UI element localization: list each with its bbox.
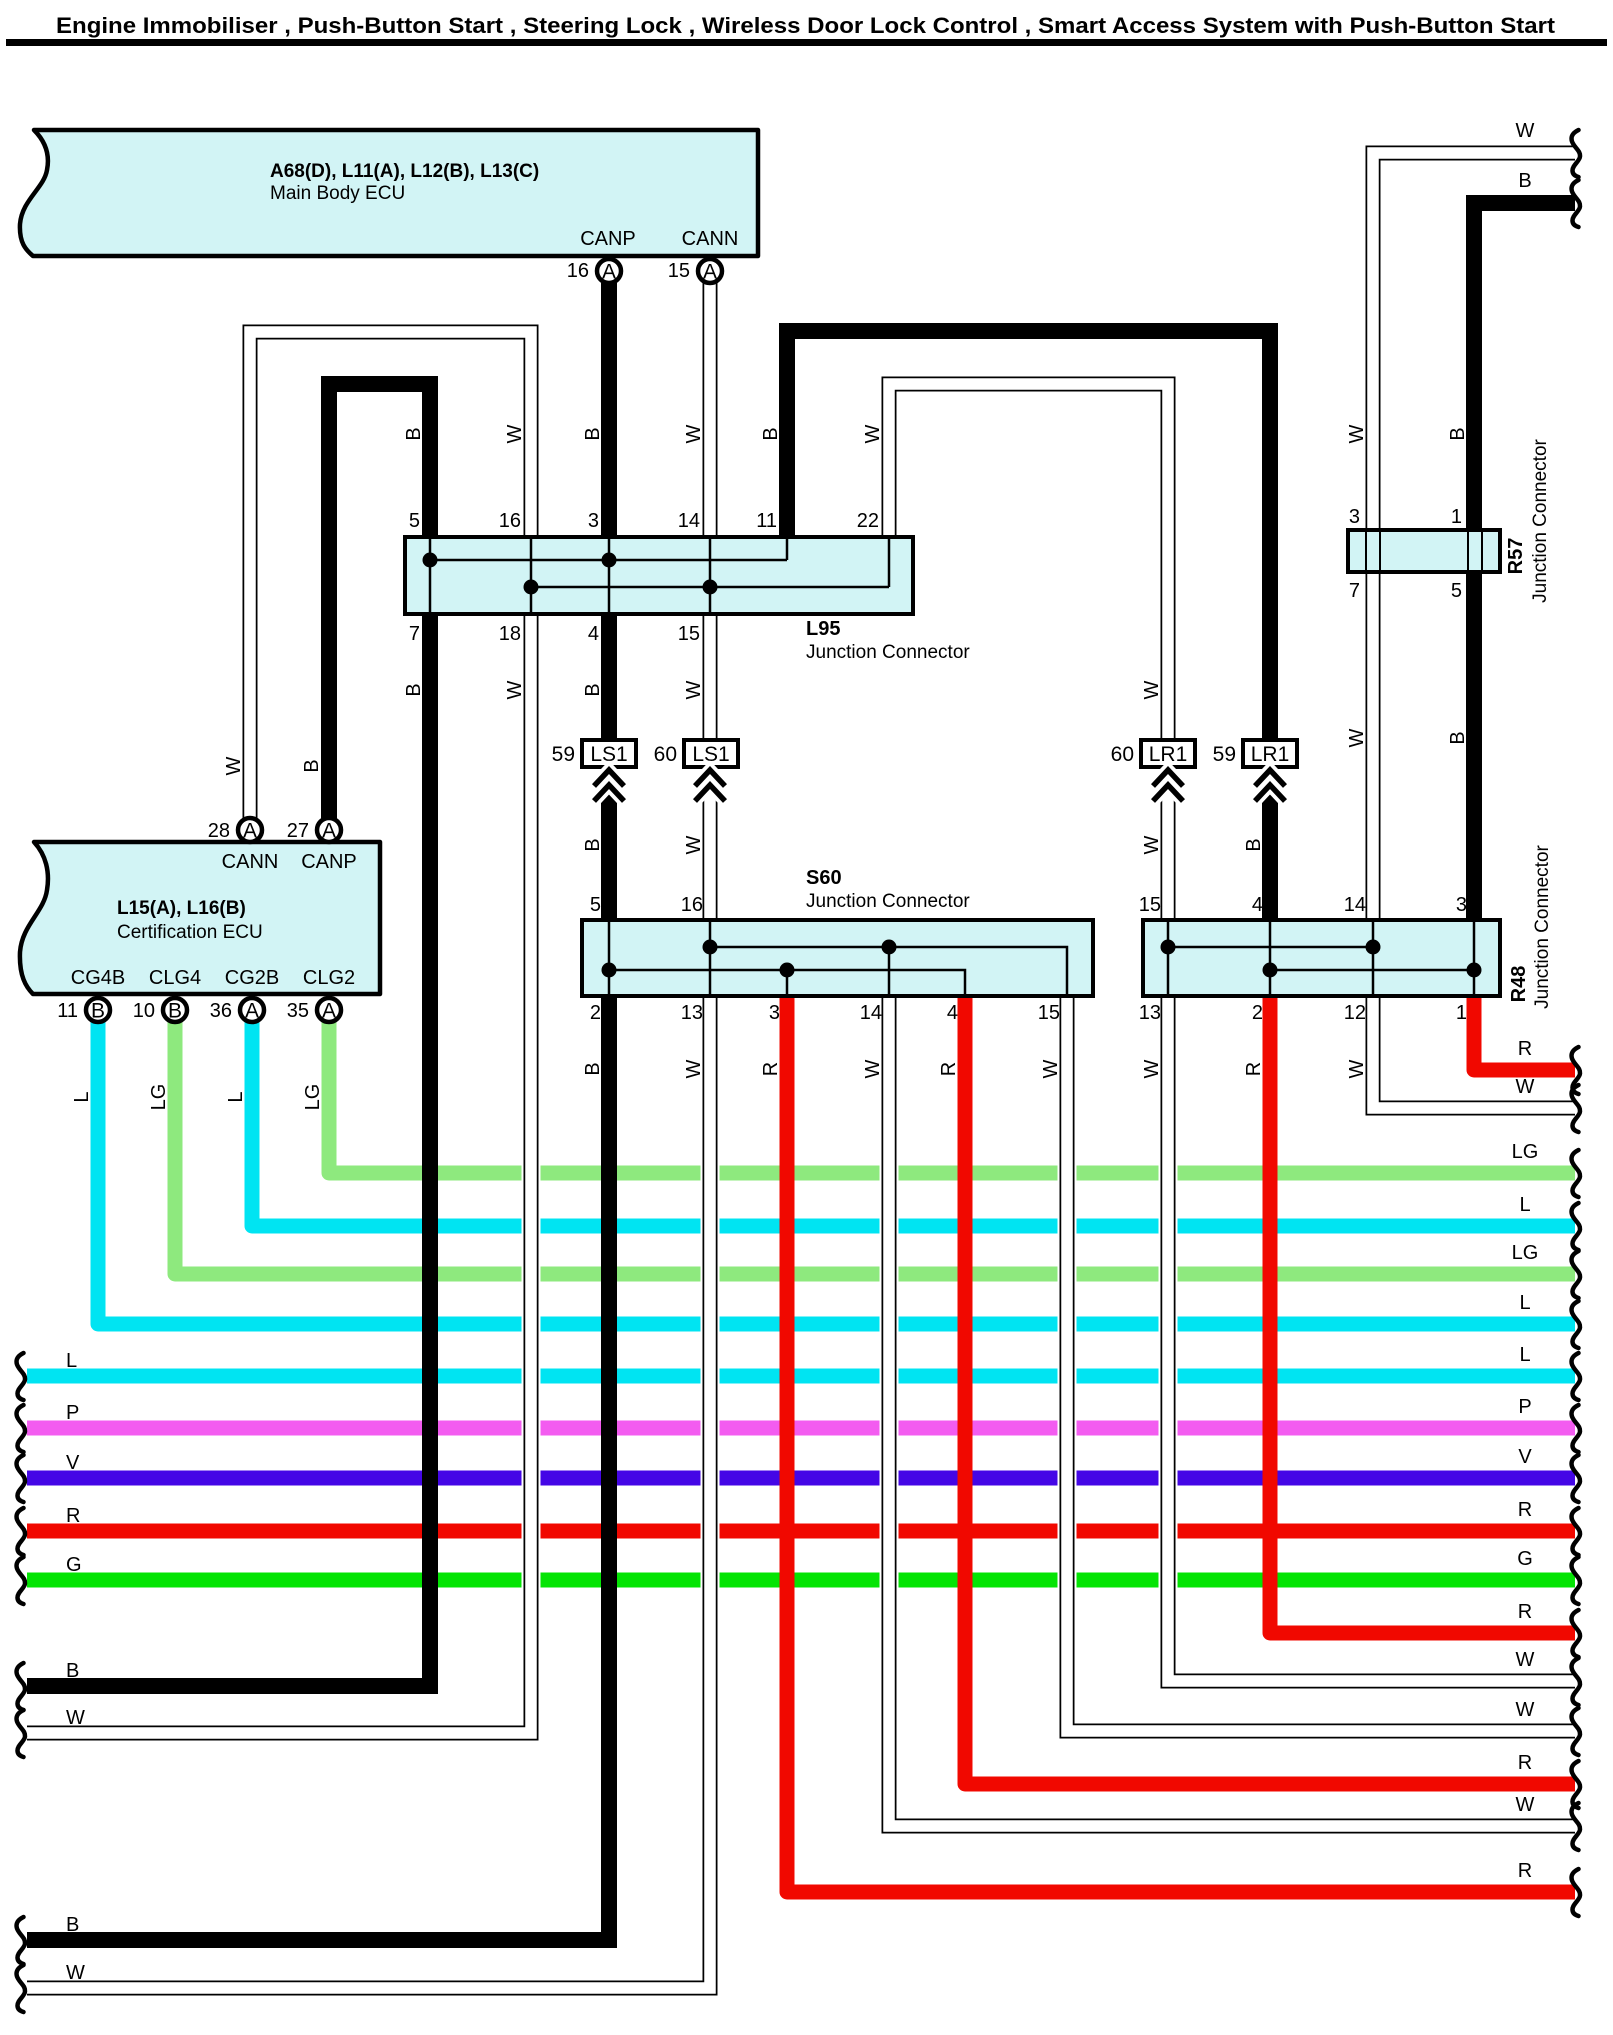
R48 name label <box>1508 844 1553 1008</box>
break symbol left edge wire R y=1531 <box>17 1508 26 1555</box>
L95 name label <box>806 618 970 663</box>
svg-text:Engine Immobiliser , Push-Butt: Engine Immobiliser , Push-Button Start ,… <box>56 13 1556 38</box>
svg-text:W: W <box>683 835 705 854</box>
svg-text:1: 1 <box>1456 1002 1467 1024</box>
S60 pin number 15 <box>1038 1002 1060 1024</box>
wire B from L95 pin 4 to splice LS1 59 <box>601 616 617 740</box>
certification ECU terminal label CANP <box>301 851 357 873</box>
svg-text:W: W <box>1516 1649 1535 1671</box>
svg-text:W: W <box>1516 1699 1535 1721</box>
label B on CANP loop wire <box>403 427 425 440</box>
label LG at right edge y=1173 <box>1512 1141 1539 1163</box>
label W on R57 pin 3 wire <box>1346 424 1368 443</box>
break symbol left edge wire L y=1376 <box>17 1353 26 1400</box>
svg-text:W: W <box>1040 1059 1062 1078</box>
svg-text:13: 13 <box>681 1002 703 1024</box>
S60 internal pin line 16-13 <box>709 922 712 994</box>
label B below L95 pin 7 <box>403 683 425 696</box>
label R at right edge y=1633 <box>1518 1601 1532 1623</box>
svg-text:A: A <box>322 1000 336 1023</box>
svg-text:12: 12 <box>1344 1002 1366 1024</box>
label R at left edge y=1531 <box>66 1505 80 1527</box>
L95 pin number 18 <box>499 623 521 645</box>
certification ECU pin 10 circle B <box>133 998 187 1023</box>
label W at right edge y=1826 <box>1516 1794 1535 1816</box>
wire W from S60 pin 14 down and right to edge <box>889 998 1575 1826</box>
break symbol right edge wire B y=203 <box>1572 180 1581 227</box>
label P at left edge y=1428 <box>66 1402 79 1424</box>
R57 pin number 7 <box>1349 580 1360 602</box>
label L at right edge y=1376 <box>1519 1344 1530 1366</box>
label R at right edge y=1892 <box>1518 1860 1532 1882</box>
wire B from L95 pin 7 down and left to edge <box>27 616 430 1686</box>
svg-text:W: W <box>1346 728 1368 747</box>
svg-text:G: G <box>66 1554 82 1576</box>
svg-text:60: 60 <box>1111 743 1134 766</box>
wire W loop from certification ECU pin 28 CANN up over to L95 pin 16 <box>250 332 531 820</box>
wire B from splice LS1 59 to S60 pin 5 <box>601 767 617 918</box>
wire W from R48 pin 13 down and right to edge <box>1168 998 1575 1681</box>
label LG at right edge y=1274 <box>1512 1242 1539 1264</box>
L95 internal bus lower <box>531 586 889 589</box>
break symbol right edge wire L y=1226 <box>1572 1203 1581 1250</box>
svg-text:16: 16 <box>567 260 589 282</box>
S60 pin number 16 <box>681 894 703 916</box>
R48 pin number 14 <box>1344 894 1366 916</box>
splice tag 59 LR1 <box>1213 740 1297 767</box>
splice arrow LS1 60 <box>695 770 725 801</box>
certification ECU terminal label CG2B <box>225 967 279 989</box>
label W below S60 pin 15 <box>1040 1059 1062 1078</box>
wire B from L95 pin 11 up over right and down to splice LR1 59 <box>787 331 1270 740</box>
certification ECU pin 27 circle A <box>287 818 341 843</box>
L95 pin number 22 <box>857 510 879 532</box>
svg-text:CG2B: CG2B <box>225 967 279 989</box>
svg-text:R: R <box>1518 1752 1532 1774</box>
certification ECU pin 36 circle A <box>210 998 264 1023</box>
S60 junction dot pin2 <box>602 963 617 978</box>
label G at right edge y=1580 <box>1517 1548 1533 1570</box>
svg-text:W: W <box>1141 1059 1163 1078</box>
L95 pin number 15 <box>678 623 700 645</box>
break symbol right edge wire R y=1892 <box>1572 1869 1581 1916</box>
svg-text:W: W <box>1516 120 1535 142</box>
label V at right edge y=1478 <box>1518 1446 1532 1468</box>
svg-text:7: 7 <box>409 623 420 645</box>
svg-text:R: R <box>1243 1062 1265 1076</box>
junction connector R57 box <box>1348 530 1500 572</box>
label W on CANN loop wire <box>504 424 526 443</box>
R48 junction dot pin15 <box>1161 940 1176 955</box>
svg-text:L: L <box>66 1350 77 1372</box>
R48 pin number 12 <box>1344 1002 1366 1024</box>
main body ECU terminal label CANP <box>580 228 636 250</box>
svg-text:W: W <box>1346 1059 1368 1078</box>
svg-text:3: 3 <box>1349 506 1360 528</box>
svg-text:B: B <box>403 427 425 440</box>
main body ECU box A68(D) L11(A) L12(B) L13(C) <box>20 130 758 256</box>
L95 pin number 11 <box>756 510 777 532</box>
break symbol right edge wire G y=1580 <box>1572 1557 1581 1604</box>
break symbol right edge wire LG y=1173 <box>1572 1150 1581 1197</box>
svg-text:59: 59 <box>1213 743 1236 766</box>
svg-text:L: L <box>1519 1344 1530 1366</box>
svg-text:15: 15 <box>1139 894 1161 916</box>
certification ECU name text <box>117 898 263 943</box>
break symbol right edge wire R y=1784 <box>1572 1761 1581 1808</box>
svg-text:14: 14 <box>678 510 700 532</box>
S60 pin number 5 <box>590 894 601 916</box>
break symbol right edge wire W y=1681 <box>1572 1658 1581 1705</box>
svg-text:R: R <box>66 1505 80 1527</box>
label B on CANP wire <box>582 427 604 440</box>
label B on L95 pin 11 wire <box>760 427 782 440</box>
S60 pin number 14 <box>860 1002 882 1024</box>
break symbol left edge wire G y=1580 <box>17 1557 26 1604</box>
svg-text:R: R <box>1518 1601 1532 1623</box>
L95 junction dot pin16 <box>524 580 539 595</box>
R57 name label <box>1505 438 1551 602</box>
svg-text:CANP: CANP <box>580 228 636 250</box>
svg-text:B: B <box>1518 170 1531 192</box>
label B on R57 pin 1 wire <box>1447 427 1469 440</box>
break symbol left edge wire P y=1428 <box>17 1405 26 1452</box>
svg-text:W: W <box>1141 680 1163 699</box>
svg-text:G: G <box>1517 1548 1533 1570</box>
break symbol left edge wire B y=1940 <box>17 1917 26 1964</box>
label L at right edge y=1324 <box>1519 1292 1530 1314</box>
svg-text:A68(D), L11(A), L12(B), L13(C): A68(D), L11(A), L12(B), L13(C) <box>270 161 539 182</box>
wire R horizontal across page <box>27 1524 1575 1539</box>
svg-text:L15(A), L16(B): L15(A), L16(B) <box>117 898 246 919</box>
svg-text:V: V <box>66 1452 80 1474</box>
L95 pin number 3 <box>588 510 599 532</box>
label B below L95 pin 4 <box>582 683 604 696</box>
svg-text:CLG2: CLG2 <box>303 967 355 989</box>
svg-text:B: B <box>582 427 604 440</box>
svg-text:CANP: CANP <box>301 851 357 873</box>
R48 internal pin line 3-1 <box>1473 922 1476 994</box>
L95 internal pin line 14-15 <box>709 539 712 612</box>
svg-text:W: W <box>66 1962 85 1984</box>
label L at right edge y=1226 <box>1519 1194 1530 1216</box>
svg-text:R: R <box>760 1062 782 1076</box>
wire R from R48 pin 2 down and right to edge <box>1270 998 1575 1633</box>
R57 pin number 3 <box>1349 506 1360 528</box>
break symbol right edge wire P y=1428 <box>1572 1405 1581 1452</box>
svg-text:L: L <box>225 1091 247 1102</box>
label W below R48 pin 12 <box>1346 1059 1368 1078</box>
certification ECU pin 28 circle A <box>208 818 262 843</box>
break symbol right edge wire L y=1376 <box>1572 1353 1581 1400</box>
S60 internal pin line 3 <box>786 970 789 994</box>
R48 junction dot pin14 <box>1366 940 1381 955</box>
label W at right edge y=1681 <box>1516 1649 1535 1671</box>
label B above R48 pin 4 <box>1243 838 1265 851</box>
svg-text:R: R <box>938 1062 960 1076</box>
R48 pin number 2 <box>1252 1002 1263 1024</box>
L95 junction dot pin14 <box>703 580 718 595</box>
wire W from S60 pin 13 down and left to edge <box>27 998 710 1988</box>
R48 pin number 3 <box>1456 894 1467 916</box>
wire B from S60 pin 2 down and left to edge <box>27 998 609 1940</box>
R48 pin number 4 <box>1252 894 1263 916</box>
svg-text:B: B <box>1447 731 1469 744</box>
wire LG from certification ECU pin 10 (CLG4) to right edge <box>175 1022 1575 1274</box>
label W below S60 pin 14 <box>862 1059 884 1078</box>
svg-text:CANN: CANN <box>682 228 739 250</box>
label W below S60 pin 13 <box>683 1059 705 1078</box>
svg-text:B: B <box>582 1062 604 1075</box>
svg-text:B: B <box>301 759 323 772</box>
svg-text:3: 3 <box>1456 894 1467 916</box>
svg-text:W: W <box>862 1059 884 1078</box>
L95 pin number 14 <box>678 510 700 532</box>
svg-text:59: 59 <box>552 743 575 766</box>
svg-text:13: 13 <box>1139 1002 1161 1024</box>
splice arrow LR1 59 <box>1255 770 1285 801</box>
break symbol left edge wire V y=1478 <box>17 1455 26 1502</box>
svg-text:W: W <box>683 680 705 699</box>
label R below S60 pin 3 <box>760 1062 782 1076</box>
svg-text:W: W <box>683 424 705 443</box>
svg-text:W: W <box>223 756 245 775</box>
wire B from right edge through R57 pins 1-5 to R48 pin 3 <box>1474 203 1575 918</box>
svg-text:P: P <box>1518 1396 1531 1418</box>
label V at left edge y=1478 <box>66 1452 80 1474</box>
label L at left edge y=1376 <box>66 1350 77 1372</box>
S60 pin number 13 <box>681 1002 703 1024</box>
R57 pin number 5 <box>1451 580 1462 602</box>
label W at right edge y=1731 <box>1516 1699 1535 1721</box>
svg-text:W: W <box>862 424 884 443</box>
splice arrow LS1 59 <box>594 770 624 801</box>
svg-text:35: 35 <box>287 1000 309 1022</box>
junction connector S60 box <box>582 920 1093 996</box>
svg-text:W: W <box>1141 835 1163 854</box>
label W above R48 pin 15 <box>1141 835 1163 854</box>
main body ECU pin 15 circle A <box>668 259 722 284</box>
label R at right edge y=1070 <box>1518 1038 1532 1060</box>
svg-text:B: B <box>403 683 425 696</box>
label G at left edge y=1580 <box>66 1554 82 1576</box>
svg-text:10: 10 <box>133 1000 155 1022</box>
R48 internal pin line 14-12 <box>1372 922 1375 994</box>
wire L horizontal across page <box>27 1369 1575 1384</box>
label B on cert CANP wire <box>301 759 323 772</box>
R48 internal bus upper <box>1168 946 1373 949</box>
S60 junction dot pin3 <box>780 963 795 978</box>
main body ECU name text <box>270 161 539 204</box>
svg-text:7: 7 <box>1349 580 1360 602</box>
S60 pin number 4 <box>947 1002 958 1024</box>
label W at left edge y=1988 <box>66 1962 85 1984</box>
svg-text:P: P <box>66 1402 79 1424</box>
certification ECU pin 11 circle B <box>57 998 110 1023</box>
S60 pin number 3 <box>769 1002 780 1024</box>
svg-text:LG: LG <box>302 1084 324 1111</box>
svg-text:15: 15 <box>1038 1002 1060 1024</box>
break symbol right edge wire W y=1826 <box>1572 1803 1581 1850</box>
svg-text:B: B <box>582 683 604 696</box>
svg-text:28: 28 <box>208 820 230 842</box>
svg-text:Junction Connector: Junction Connector <box>806 642 970 663</box>
svg-text:5: 5 <box>1451 580 1462 602</box>
svg-text:B: B <box>66 1914 79 1936</box>
label LG on cert pin 10 wire <box>148 1084 170 1111</box>
S60 internal bus upper <box>710 947 1067 994</box>
L95 junction dot pin5 <box>423 553 438 568</box>
svg-text:11: 11 <box>756 510 777 532</box>
junction connector L95 box <box>405 537 913 614</box>
L95 internal pin line 3-4 <box>608 539 611 612</box>
wire W from right edge through R57 pins 3-7 to R48 pin 14 <box>1373 153 1575 918</box>
svg-text:B: B <box>760 427 782 440</box>
certification ECU terminal label CG4B <box>71 967 125 989</box>
svg-text:W: W <box>66 1707 85 1729</box>
svg-text:15: 15 <box>678 623 700 645</box>
break symbol right edge wire R y=1531 <box>1572 1508 1581 1555</box>
label P at right edge y=1428 <box>1518 1396 1531 1418</box>
svg-text:R57: R57 <box>1505 538 1527 575</box>
svg-text:R: R <box>1518 1038 1532 1060</box>
svg-text:1: 1 <box>1451 506 1462 528</box>
L95 junction dot pin3 <box>602 553 617 568</box>
svg-text:CG4B: CG4B <box>71 967 125 989</box>
R48 internal bus lower <box>1270 969 1474 972</box>
wire V horizontal across page <box>27 1471 1575 1486</box>
svg-text:60: 60 <box>654 743 677 766</box>
wire G horizontal across page <box>27 1573 1575 1588</box>
L95 internal pin line 11 <box>786 539 789 560</box>
svg-text:A: A <box>703 261 717 284</box>
svg-text:14: 14 <box>860 1002 882 1024</box>
svg-text:B: B <box>1243 838 1265 851</box>
svg-text:L: L <box>1519 1194 1530 1216</box>
R57 internal pin lines 1-5 <box>1468 532 1482 570</box>
svg-text:B: B <box>1447 427 1469 440</box>
svg-text:W: W <box>1346 424 1368 443</box>
main body ECU terminal label CANN <box>682 228 739 250</box>
S60 internal bus lower <box>609 970 965 994</box>
wire R from R48 pin 1 down and right to edge <box>1474 998 1575 1070</box>
svg-text:5: 5 <box>409 510 420 532</box>
label R below R48 pin 2 <box>1243 1062 1265 1076</box>
wire L from certification ECU pin 11 (CG4B) to right edge <box>98 1022 1575 1324</box>
svg-text:4: 4 <box>1252 894 1263 916</box>
svg-text:L: L <box>71 1091 93 1102</box>
label W below L95 pin 15 <box>683 680 705 699</box>
svg-text:Main Body ECU: Main Body ECU <box>270 183 405 204</box>
junction connector R48 box <box>1143 920 1500 996</box>
wire R from S60 pin 4 down and right to edge <box>965 998 1575 1784</box>
svg-text:W: W <box>1516 1076 1535 1098</box>
svg-text:R: R <box>1518 1499 1532 1521</box>
title underline bar <box>6 39 1607 46</box>
svg-text:W: W <box>504 680 526 699</box>
R48 internal pin line 4-2 <box>1269 922 1272 994</box>
splice arrow LR1 60 <box>1153 770 1183 801</box>
L95 pin number 5 <box>409 510 420 532</box>
R57 internal pin lines 3-7 <box>1366 532 1380 570</box>
svg-text:Certification ECU: Certification ECU <box>117 922 263 943</box>
svg-text:R48: R48 <box>1508 966 1530 1003</box>
label B at right edge y=203 <box>1518 170 1531 192</box>
svg-text:Junction Connector: Junction Connector <box>1530 438 1551 602</box>
label W below R48 pin 13 <box>1141 1059 1163 1078</box>
svg-text:LG: LG <box>1512 1141 1539 1163</box>
break symbol right edge wire R y=1633 <box>1572 1610 1581 1657</box>
splice tag 59 LS1 <box>552 740 636 767</box>
break symbol right edge wire W y=153 <box>1572 130 1581 177</box>
label B below S60 pin 2 <box>582 1062 604 1075</box>
svg-text:B: B <box>91 1000 105 1023</box>
label W on cert CANN wire <box>223 756 245 775</box>
svg-text:B: B <box>168 1000 182 1023</box>
svg-text:A: A <box>243 820 257 843</box>
label R below S60 pin 4 <box>938 1062 960 1076</box>
break symbol left edge wire W y=1733 <box>17 1710 26 1757</box>
svg-text:3: 3 <box>588 510 599 532</box>
svg-text:CANN: CANN <box>222 851 279 873</box>
svg-text:S60: S60 <box>806 867 842 889</box>
svg-text:5: 5 <box>590 894 601 916</box>
svg-text:36: 36 <box>210 1000 232 1022</box>
svg-text:B: B <box>66 1660 79 1682</box>
label LG on cert pin 35 wire <box>302 1084 324 1111</box>
L95 internal pin line 5-7 <box>429 539 432 612</box>
svg-text:CLG4: CLG4 <box>149 967 201 989</box>
svg-text:4: 4 <box>947 1002 958 1024</box>
svg-text:A: A <box>245 1000 259 1023</box>
svg-text:L95: L95 <box>806 618 840 640</box>
svg-text:W: W <box>1516 1794 1535 1816</box>
L95 internal pin line 16-18 <box>530 539 533 612</box>
title text <box>56 13 1556 38</box>
svg-text:B: B <box>582 838 604 851</box>
svg-text:A: A <box>602 261 616 284</box>
wire W from L95 pin 18 down and left to edge <box>27 616 531 1733</box>
svg-text:V: V <box>1518 1446 1532 1468</box>
svg-text:2: 2 <box>590 1002 601 1024</box>
certification ECU terminal label CANN <box>222 851 279 873</box>
break symbol right edge wire LG y=1274 <box>1572 1251 1581 1298</box>
label L on cert pin 11 wire <box>71 1091 93 1102</box>
svg-text:15: 15 <box>668 260 690 282</box>
L95 pin number 7 <box>409 623 420 645</box>
wire W from S60 pin 15 down and right to edge <box>1067 998 1575 1731</box>
label W at left edge y=1733 <box>66 1707 85 1729</box>
label W at right edge y=153 <box>1516 120 1535 142</box>
svg-text:L: L <box>1519 1292 1530 1314</box>
R57 pin number 1 <box>1451 506 1462 528</box>
wire LG from certification ECU pin 35 (CLG2) to right edge <box>329 1022 1575 1173</box>
svg-text:27: 27 <box>287 820 309 842</box>
wire R from S60 pin 3 down and right to edge <box>787 998 1575 1892</box>
label W on CANN wire <box>683 424 705 443</box>
wire W from R48 pin 12 down and right to edge <box>1373 998 1575 1108</box>
label W above S60 pin 16 <box>683 835 705 854</box>
svg-text:Junction Connector: Junction Connector <box>1532 844 1553 1008</box>
wire B CANP from main body ECU pin 16 to L95 pin 3 <box>601 283 617 535</box>
wire P horizontal across page <box>27 1421 1575 1436</box>
svg-text:14: 14 <box>1344 894 1366 916</box>
svg-text:4: 4 <box>588 623 599 645</box>
S60 internal pin line 14 <box>888 947 891 994</box>
label W on L95 pin 22 wire <box>862 424 884 443</box>
svg-text:W: W <box>504 424 526 443</box>
wire W CANN from main body ECU pin 15 to L95 pin 14 <box>703 283 718 535</box>
